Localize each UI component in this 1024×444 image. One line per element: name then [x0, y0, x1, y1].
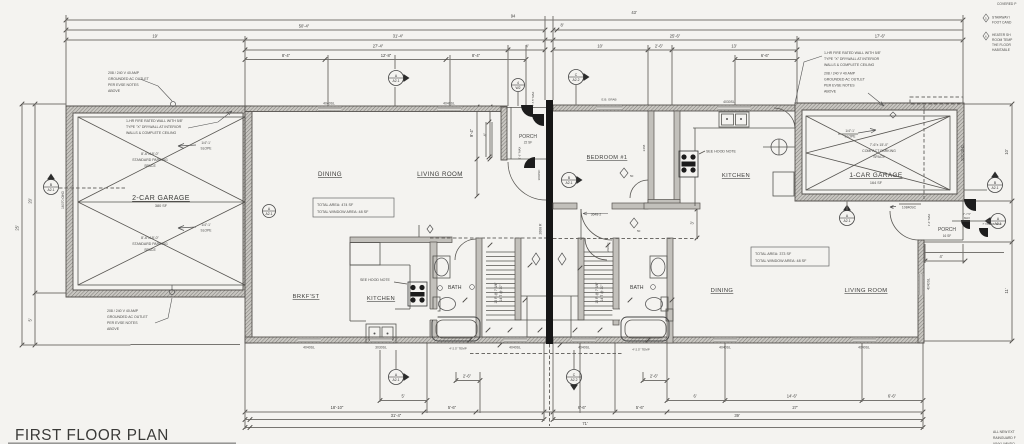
- svg-text:COVERED P: COVERED P: [997, 2, 1017, 6]
- svg-text:19': 19': [152, 34, 158, 39]
- 1-car garage door dashed track: [923, 105, 925, 199]
- svg-text:C: C: [575, 73, 578, 77]
- bottom witness line x580: [579, 343, 581, 413]
- svg-text:STAIRWAY I: STAIRWAY I: [992, 16, 1010, 20]
- svg-text:SPACE: SPACE: [144, 248, 156, 252]
- svg-text:BEDROOM #1: BEDROOM #1: [587, 155, 628, 161]
- witness line x672: [671, 45, 673, 106]
- left bath toilet: [433, 297, 456, 311]
- svg-text:A2.1: A2.1: [992, 186, 999, 190]
- room label 1-CAR GARAGE: [849, 172, 902, 179]
- right porch door black wedge 3: [979, 228, 988, 237]
- svg-text:3040SC: 3040SC: [537, 169, 541, 181]
- svg-text:ABOVE: ABOVE: [108, 89, 121, 93]
- svg-text:5'-6": 5'-6": [448, 405, 457, 410]
- svg-text:208 / 240 V 40 AMP: 208 / 240 V 40 AMP: [824, 72, 856, 76]
- svg-text:WALLS & COMPLETE CEILING: WALLS & COMPLETE CEILING: [824, 63, 875, 67]
- left kitchen sink counter: [366, 324, 396, 343]
- svg-text:14 T @ 10": 14 T @ 10": [499, 284, 503, 302]
- svg-text:208 / 240 V 40 AMP: 208 / 240 V 40 AMP: [107, 309, 139, 313]
- EVSE outlet note top left: [108, 71, 150, 93]
- right bath label: [630, 285, 655, 291]
- svg-text:2'-6": 2'-6": [463, 374, 472, 379]
- witness line x545: [544, 16, 546, 100]
- dimension row 71': [243, 421, 926, 430]
- svg-text:3648-2: 3648-2: [591, 213, 602, 217]
- section marker A/A2.1 top: [389, 71, 410, 86]
- marker line right edge: [964, 189, 987, 191]
- svg-text:A: A: [395, 373, 398, 377]
- witness line x648: [647, 45, 649, 106]
- svg-text:6': 6': [693, 394, 696, 399]
- svg-text:E.B. GRAB: E.B. GRAB: [601, 98, 616, 102]
- hall door size diamond: [630, 218, 641, 233]
- marker stem bottom center: [573, 350, 575, 369]
- svg-text:31'-4": 31'-4": [391, 413, 402, 418]
- svg-text:7'-6"x 15'-0": 7'-6"x 15'-0": [870, 143, 889, 147]
- svg-text:4040SL: 4040SL: [927, 278, 931, 290]
- marker sight line right porch: [952, 220, 990, 222]
- svg-text:PORCH: PORCH: [519, 134, 537, 140]
- svg-text:BATH: BATH: [448, 285, 462, 291]
- svg-text:PER EVSE NOTES: PER EVSE NOTES: [824, 84, 855, 88]
- right unit patio slider arc: [890, 211, 919, 240]
- svg-text:8'-4": 8'-4": [472, 53, 481, 58]
- dimension row 18'-10" 5'-6" 6'-6" 5'-6" 27': [243, 405, 926, 414]
- lower slope arrow: [178, 223, 212, 233]
- 1-car garage parking space outline: [806, 116, 950, 190]
- left porch door black wedge 2: [532, 114, 544, 126]
- EVSE leader top left: [140, 79, 176, 107]
- witness line x797: [796, 36, 798, 103]
- right garage slope arrow: [838, 129, 876, 139]
- left kitchen north wall: [350, 237, 452, 243]
- svg-text:9070 OHD: 9070 OHD: [961, 144, 965, 161]
- left stair east wall: [515, 238, 521, 320]
- svg-text:16 SF: 16 SF: [943, 234, 952, 238]
- left front door swing: [508, 162, 546, 200]
- bottom witness line x480: [479, 372, 481, 413]
- bottom witness line x725: [724, 343, 726, 402]
- section marker C/A2.2 top right: [569, 70, 590, 85]
- svg-text:ALL NEW EXT: ALL NEW EXT: [993, 430, 1015, 434]
- svg-text:4040SL: 4040SL: [578, 346, 590, 350]
- left entry hall lines: [486, 296, 546, 337]
- upper parking space note: [132, 152, 168, 168]
- window label 3030SL bottom: [375, 346, 387, 350]
- svg-text:4040SL: 4040SL: [443, 102, 455, 106]
- dimension line 50'-4" / 8': [64, 23, 963, 33]
- svg-text:A2.1: A2.1: [266, 212, 273, 216]
- upper slope arrow: [178, 141, 212, 151]
- right unit east wall: [918, 240, 924, 343]
- section marker B/A2.1 right edge: [988, 172, 1003, 193]
- svg-text:DINING: DINING: [711, 288, 734, 294]
- vertical dim 10' / 11' right edge: [1004, 102, 1014, 344]
- svg-text:11': 11': [1004, 288, 1009, 293]
- right bath toilet: [646, 297, 674, 321]
- bottom witness line x380: [379, 350, 381, 402]
- bottom witness line x615: [614, 343, 616, 413]
- svg-text:KITCHEN: KITCHEN: [722, 173, 750, 179]
- left bath tub: [432, 317, 480, 341]
- bedroom closet east wall: [674, 111, 680, 205]
- right porch boundary lines: [923, 201, 963, 240]
- svg-text:3030SL: 3030SL: [375, 346, 387, 350]
- svg-text:SLOPE: SLOPE: [845, 135, 857, 139]
- svg-text:6'-6": 6'-6": [888, 394, 897, 399]
- svg-text:208 / 240 V 40 AMP: 208 / 240 V 40 AMP: [108, 71, 140, 75]
- dimension row 5' 6' 14'-6" 6'-6": [378, 394, 926, 403]
- label 380 SF: [155, 204, 168, 208]
- svg-text:SEE HOOD NOTE: SEE HOOD NOTE: [360, 278, 391, 282]
- svg-text:27': 27': [792, 405, 798, 410]
- right stair west wall: [578, 238, 584, 320]
- left hood note: [360, 278, 407, 284]
- garage door label right 9070: [961, 144, 965, 161]
- bedroom closet west wall: [648, 111, 654, 205]
- room label DINING right: [711, 288, 734, 294]
- svg-text:10840SC: 10840SC: [902, 206, 917, 210]
- svg-text:TOTAL AREA: 373 SF: TOTAL AREA: 373 SF: [755, 252, 792, 256]
- svg-text:13': 13': [731, 43, 737, 48]
- small diamond left hall: [427, 225, 433, 233]
- left porch door black wedge 1: [521, 105, 533, 117]
- right note leader to wall: [795, 56, 884, 106]
- witness line x508: [507, 45, 509, 106]
- witness line x963: [962, 15, 964, 103]
- porch max label right4: [927, 214, 931, 227]
- right bath door swing: [585, 238, 607, 260]
- bottom witness line x544: [543, 343, 545, 421]
- porch max label right: [963, 212, 971, 216]
- svg-text:FOOT CAND: FOOT CAND: [992, 21, 1012, 25]
- svg-text:2-CAR GARAGE: 2-CAR GARAGE: [132, 195, 190, 202]
- svg-text:TYPE "X" DRYWALL AT INTERIOR: TYPE "X" DRYWALL AT INTERIOR: [824, 57, 880, 61]
- bottom witness line x427: [426, 343, 428, 413]
- witness line x395: [394, 55, 396, 69]
- svg-text:14 T @ 10": 14 T @ 10": [600, 284, 604, 302]
- porch max label left: [531, 92, 535, 107]
- section marker A/A2.1 bottom left: [389, 370, 410, 385]
- window 3030SL bottom wall: [370, 338, 392, 342]
- window label 4040SL bottom3: [578, 346, 590, 350]
- window 4040SL bottom wall 3: [572, 338, 595, 342]
- total area box right: [751, 247, 829, 266]
- left unit top wall: [245, 106, 507, 112]
- svg-text:7' 7/8.5/16" MAX: 7' 7/8.5/16" MAX: [982, 222, 1002, 226]
- svg-text:WALLS & COMPLETE CEILING: WALLS & COMPLETE CEILING: [126, 131, 177, 135]
- right kitchen counter lines: [693, 128, 795, 206]
- left bath lavatory: [433, 256, 450, 278]
- right entry hall lines: [553, 296, 613, 337]
- label 164 SF: [870, 181, 883, 185]
- svg-text:25': 25': [15, 225, 20, 231]
- svg-text:A: A: [395, 74, 398, 78]
- bottom witness line x923: [922, 343, 924, 429]
- margin note 5 stairway: [983, 14, 1012, 25]
- svg-text:W2: W2: [515, 86, 520, 90]
- 10840SC arrow: [890, 204, 921, 209]
- section marker B/A2.1 bedroom: [562, 173, 583, 188]
- fire note leader left: [188, 111, 232, 128]
- svg-text:A2.2: A2.2: [571, 378, 578, 382]
- svg-text:2668-C: 2668-C: [606, 242, 610, 251]
- svg-text:4040SL: 4040SL: [509, 346, 521, 350]
- svg-text:2'-6": 2'-6": [650, 374, 659, 379]
- 2-car garage lower parking X: [78, 202, 245, 285]
- svg-text:SPACE: SPACE: [144, 164, 156, 168]
- right unit bottom wall: [553, 337, 923, 343]
- svg-text:4': 4': [939, 254, 942, 259]
- window label temp bottom right: [632, 348, 650, 352]
- door label 3648-2: [591, 213, 602, 217]
- svg-text:SLOPE: SLOPE: [201, 229, 213, 233]
- svg-text:1-CAR GARAGE: 1-CAR GARAGE: [849, 172, 902, 179]
- window 4040SL bottom wall 5: [853, 338, 876, 342]
- svg-text:10': 10': [597, 43, 603, 48]
- right stair note 15R/14T: [595, 282, 604, 304]
- svg-text:A2.1: A2.1: [566, 181, 573, 185]
- window label 4040SL bottom4: [719, 346, 731, 350]
- svg-text:5: 5: [985, 16, 987, 20]
- window label 3040SC porch left: [537, 169, 541, 181]
- svg-text:2'-6": 2'-6": [655, 43, 664, 48]
- witness line x245: [244, 36, 246, 106]
- svg-text:4': 4': [483, 133, 488, 136]
- right kitchen sink: [719, 112, 749, 127]
- stair direction diamond left: [532, 253, 540, 265]
- bottom witness line x643: [642, 372, 644, 382]
- window 4030SL kitchen top: [718, 106, 750, 110]
- dimension line 8'-4" 12'-8" 8'-4" 6'-6": [243, 53, 800, 62]
- room label 2-CAR GARAGE: [132, 195, 190, 202]
- right unit stair treads: [584, 252, 613, 315]
- svg-text:5': 5': [28, 318, 33, 321]
- margin note 6 heater: [983, 32, 1013, 52]
- svg-text:5': 5': [401, 394, 404, 399]
- room label KITCHEN left: [367, 296, 395, 302]
- svg-text:TOTAL WINDOW AREA: 48 SF: TOTAL WINDOW AREA: 48 SF: [755, 259, 807, 263]
- lower parking space note: [132, 236, 168, 252]
- window label temp bottom left: [449, 347, 467, 351]
- svg-text:ABOVE: ABOVE: [107, 327, 120, 331]
- svg-text:1'-6" MAX: 1'-6" MAX: [927, 214, 931, 227]
- window label 4040SL east wall: [927, 278, 931, 290]
- svg-text:B: B: [994, 181, 997, 185]
- witness line x450: [449, 55, 451, 106]
- right kitchen south wall stub: [644, 203, 700, 209]
- svg-text:50: 50: [630, 174, 634, 178]
- svg-text:LIVING ROOM: LIVING ROOM: [417, 171, 463, 178]
- room label PORCH right: [938, 227, 956, 233]
- label 10840SC: [902, 206, 917, 210]
- window 4040SL top wall left2: [438, 107, 461, 111]
- witness line x553: [552, 16, 554, 100]
- svg-text:1-HR FIRE RATED WALL WITH 5/8": 1-HR FIRE RATED WALL WITH 5/8": [126, 119, 184, 123]
- left unit stair treads: [486, 252, 515, 315]
- svg-text:25'-6": 25'-6": [670, 34, 681, 39]
- vertical dim 25' left outer: [15, 102, 25, 348]
- label 22 SF left porch: [524, 141, 533, 145]
- dimension 4' right porch: [923, 254, 968, 263]
- svg-text:7'-7.5" MAX: 7'-7.5" MAX: [531, 92, 535, 107]
- svg-text:A2.2: A2.2: [573, 78, 580, 82]
- left stair note 15R/14T: [494, 282, 503, 304]
- witness line x735: [734, 55, 736, 106]
- svg-text:4'-2.5" TEMP: 4'-2.5" TEMP: [632, 348, 650, 352]
- svg-text:14'-6": 14'-6": [787, 394, 798, 399]
- svg-text:GROUNDED AC OUTLET: GROUNDED AC OUTLET: [107, 315, 149, 319]
- bedroom closet south wall: [648, 200, 680, 206]
- svg-text:HEATER SH: HEATER SH: [992, 33, 1011, 37]
- svg-text:PORCH: PORCH: [938, 227, 956, 233]
- dimension row 31'-4" 39': [243, 413, 926, 422]
- svg-text:PER EVSE NOTES: PER EVSE NOTES: [108, 83, 139, 87]
- kitchen to garage door swing: [774, 108, 795, 129]
- svg-text:A2.1: A2.1: [393, 79, 400, 83]
- svg-text:8': 8': [560, 23, 563, 28]
- right dim connector lines: [924, 104, 1012, 341]
- svg-text:FIRST FLOOR PLAN: FIRST FLOOR PLAN: [15, 427, 169, 444]
- room label BRKFST: [293, 294, 320, 300]
- svg-text:16070 OHD: 16070 OHD: [61, 190, 65, 208]
- svg-text:2468: 2468: [642, 144, 646, 151]
- section marker A dining left: [263, 205, 276, 218]
- svg-text:BATH: BATH: [630, 285, 644, 291]
- small diamond garage top right: [890, 112, 896, 118]
- dimension line overall 94 ft: [64, 10, 966, 22]
- vertical dim 9'-4" porch left: [469, 105, 479, 199]
- svg-text:TOTAL AREA: 474 SF: TOTAL AREA: 474 SF: [317, 203, 354, 207]
- water heater circle: [763, 139, 795, 155]
- svg-text:B: B: [50, 183, 53, 187]
- 2-car garage outer walls: [66, 106, 250, 297]
- window 4040SL east wall: [919, 274, 924, 295]
- vertical dim 3' closet right: [690, 207, 700, 241]
- marker stem below right garage: [846, 201, 848, 210]
- eave dashed outline above 1-car garage: [910, 97, 963, 104]
- drawing title FIRST FLOOR PLAN: [8, 427, 236, 444]
- hall width label: [606, 242, 610, 251]
- party wall (fire wall): [546, 100, 553, 344]
- window 4040SL bottom wall 2: [504, 338, 527, 342]
- left bath door swing: [455, 239, 476, 260]
- section marker B/A2.1 garage left: [44, 174, 59, 195]
- right kitchen refrigerator: [773, 172, 794, 196]
- garage door label left 16070: [61, 190, 65, 208]
- svg-text:9'-4": 9'-4": [469, 128, 474, 137]
- room label BEDROOM #1: [587, 155, 628, 161]
- left bath label: [438, 285, 475, 291]
- witness line x66: [65, 15, 67, 106]
- closet door label 2468: [642, 144, 646, 151]
- marker B dashed sight line: [59, 187, 125, 189]
- right hood note: [699, 150, 737, 155]
- svg-text:4: 4: [517, 81, 519, 85]
- svg-text:6'-6": 6'-6": [761, 53, 770, 58]
- door gap left kitchen/bath wall: [429, 309, 437, 320]
- svg-text:6: 6: [985, 34, 987, 38]
- section marker A/A2.1 right porch: [985, 214, 1006, 229]
- porch max label right3: [982, 222, 1002, 226]
- svg-text:SPACE: SPACE: [873, 155, 885, 159]
- svg-text:94: 94: [511, 14, 516, 19]
- svg-text:4040SL: 4040SL: [323, 102, 335, 106]
- porch max label left 2: [518, 147, 522, 160]
- left bath/stair wall: [476, 238, 482, 337]
- vertical dim 20' / 5' left inner: [28, 102, 38, 348]
- svg-text:380 SF: 380 SF: [155, 204, 168, 208]
- svg-text:27'-4": 27'-4": [373, 43, 384, 48]
- stair misc ticks: [486, 243, 633, 333]
- svg-text:B: B: [568, 176, 571, 180]
- svg-text:ABOVE: ABOVE: [824, 90, 837, 94]
- svg-text:12'-8": 12'-8": [381, 53, 392, 58]
- window symbol circle above left porch: [512, 79, 525, 92]
- room label LIVING ROOM right: [844, 288, 887, 294]
- left brkfst door arc: [630, 180, 648, 198]
- svg-text:50: 50: [637, 229, 641, 233]
- svg-text:5'-6": 5'-6": [636, 405, 645, 410]
- EVSE outlet note bottom left: [107, 309, 149, 331]
- svg-text:STANDARD PARKING: STANDARD PARKING: [132, 242, 168, 246]
- left porch west wall: [501, 107, 507, 160]
- vertical dim 4' porch left: [483, 105, 493, 162]
- 1-car garage outer walls: [795, 103, 964, 201]
- witness line x395 lower: [394, 87, 396, 106]
- svg-text:C: C: [573, 373, 576, 377]
- svg-text:10': 10': [1004, 149, 1009, 155]
- svg-text:20': 20': [28, 198, 33, 204]
- svg-text:TOTAL WINDOW AREA: 48 SF: TOTAL WINDOW AREA: 48 SF: [317, 210, 369, 214]
- svg-text:SEE HOOD NOTE: SEE HOOD NOTE: [706, 150, 737, 154]
- svg-text:1/4":1': 1/4":1': [201, 223, 211, 227]
- svg-text:15 R @ 7 3/4": 15 R @ 7 3/4": [494, 282, 498, 304]
- 2-car garage upper parking X: [78, 117, 245, 202]
- room label KITCHEN right: [722, 173, 750, 179]
- svg-text:22 SF: 22 SF: [524, 141, 533, 145]
- dimension line 27'-4" 4' 10' 2'-6" 13': [243, 43, 800, 52]
- svg-text:4040SL: 4040SL: [858, 346, 870, 350]
- svg-text:A: A: [997, 217, 1000, 221]
- stair direction diamond right: [558, 253, 566, 265]
- svg-text:2668 R: 2668 R: [539, 223, 543, 234]
- window label 4040SL top1: [323, 102, 335, 106]
- left kitchen counter lines: [350, 225, 419, 321]
- window label 4040SL bottom2: [509, 346, 521, 350]
- marker stem bottom left: [395, 350, 397, 369]
- bottom witness line x667: [666, 343, 668, 402]
- svg-text:ROOM TEMP: ROOM TEMP: [992, 38, 1013, 42]
- right porch door black wedge 2: [961, 220, 970, 229]
- marker C top line: [575, 85, 577, 105]
- svg-text:COMPACT PARKING: COMPACT PARKING: [862, 149, 896, 153]
- svg-text:A: A: [268, 207, 271, 211]
- svg-text:A: A: [846, 214, 849, 218]
- left porch boundary lines: [507, 107, 546, 159]
- label 16 SF right porch: [943, 234, 952, 238]
- svg-text:STANDARD PARKING: STANDARD PARKING: [132, 158, 168, 162]
- svg-text:PER EVSE NOTES: PER EVSE NOTES: [107, 321, 138, 325]
- right unit top wall: [553, 105, 795, 111]
- window label egress bedroom: [601, 98, 616, 102]
- section marker A/A2.1 below right garage: [840, 205, 855, 226]
- left kitchen/bath wall: [430, 242, 437, 337]
- svg-text:TYPE "X" DRYWALL AT INTERIOR: TYPE "X" DRYWALL AT INTERIOR: [126, 125, 182, 129]
- witness line x328: [327, 55, 329, 106]
- svg-text:50'-4": 50'-4": [299, 24, 310, 29]
